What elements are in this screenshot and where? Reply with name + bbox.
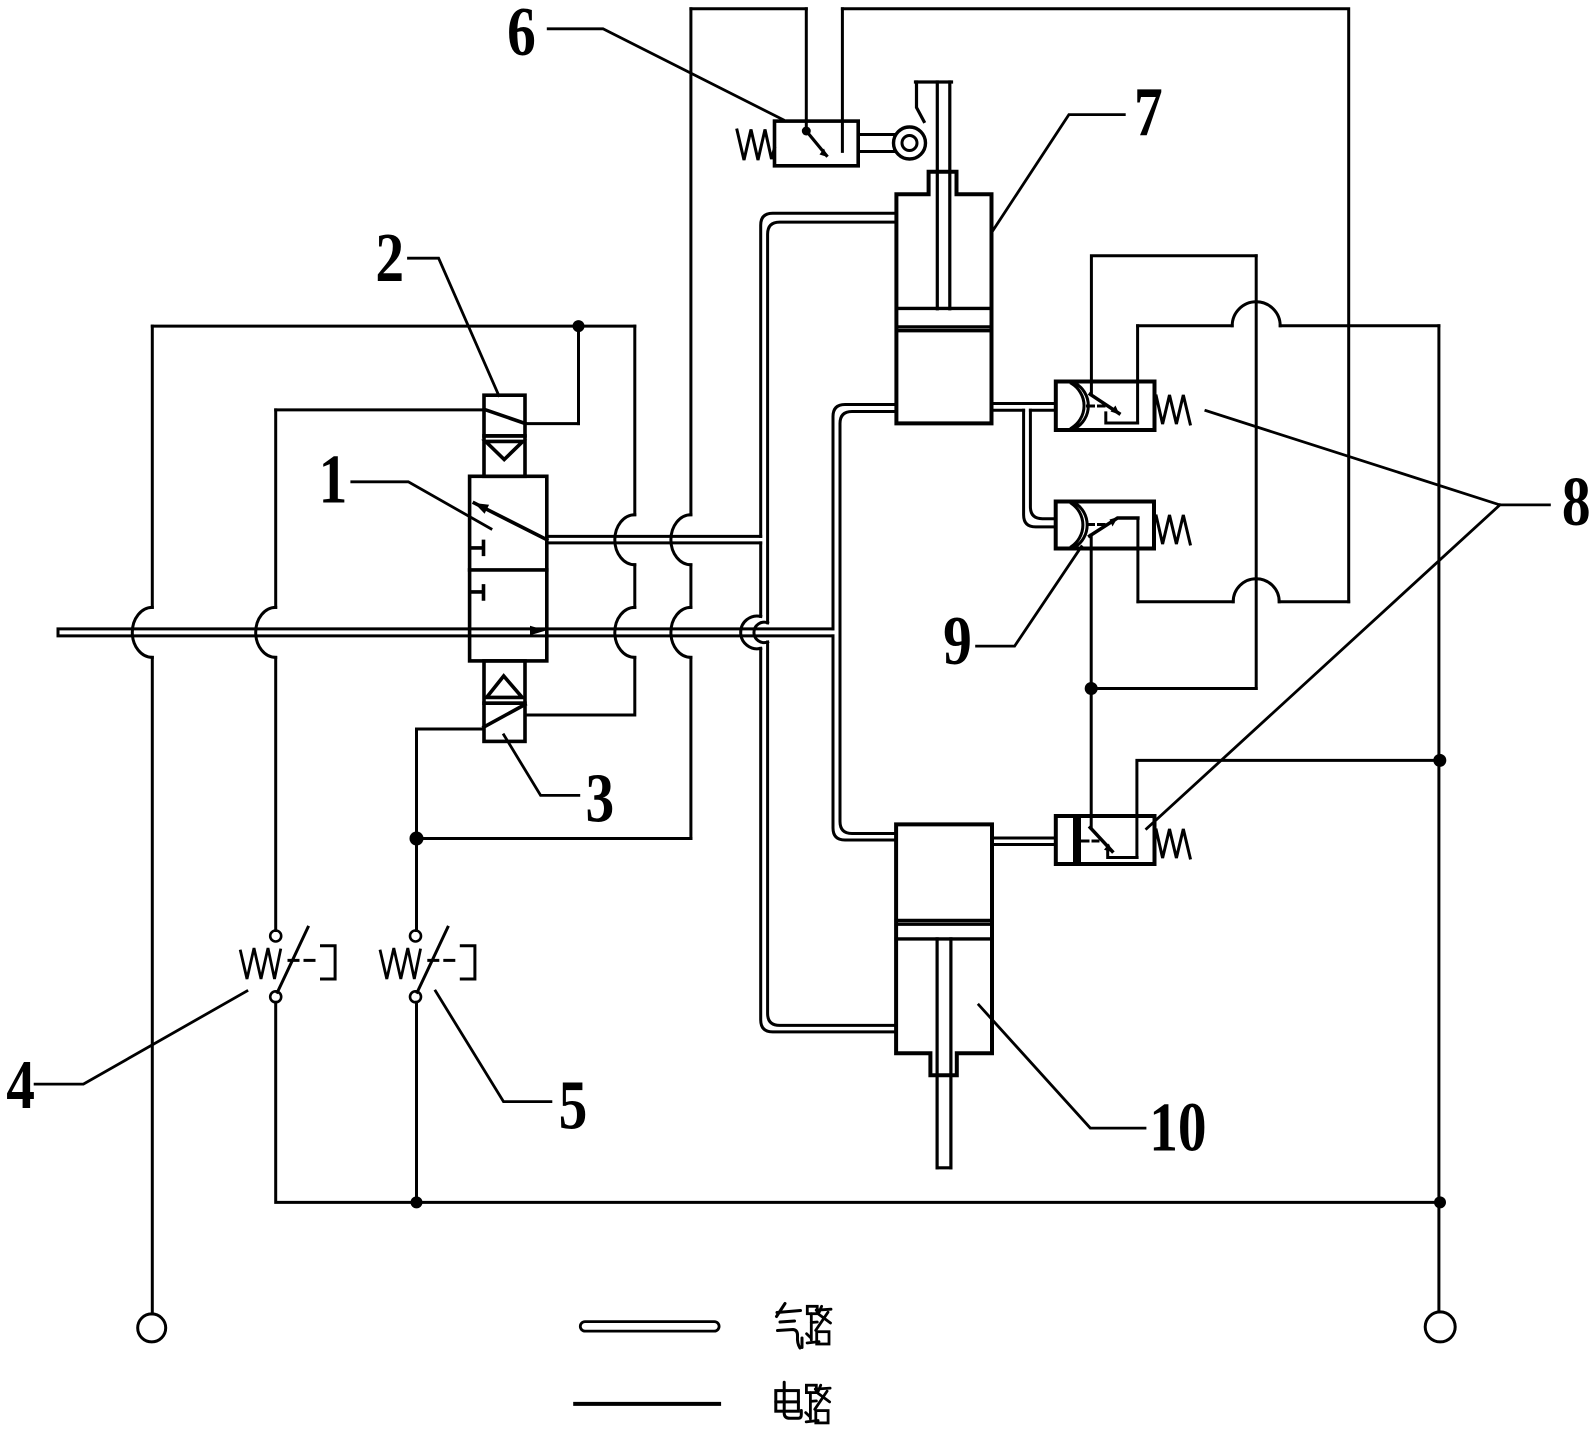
svg-text:7: 7 [1134, 73, 1163, 151]
svg-text:2: 2 [375, 218, 404, 296]
svg-text:4: 4 [6, 1045, 35, 1123]
svg-text:10: 10 [1149, 1088, 1206, 1166]
svg-text:8: 8 [1562, 463, 1591, 541]
svg-text:3: 3 [586, 759, 615, 837]
svg-text:6: 6 [507, 0, 536, 70]
svg-text:9: 9 [943, 602, 972, 680]
svg-text:1: 1 [319, 440, 348, 518]
svg-text:5: 5 [559, 1066, 588, 1144]
